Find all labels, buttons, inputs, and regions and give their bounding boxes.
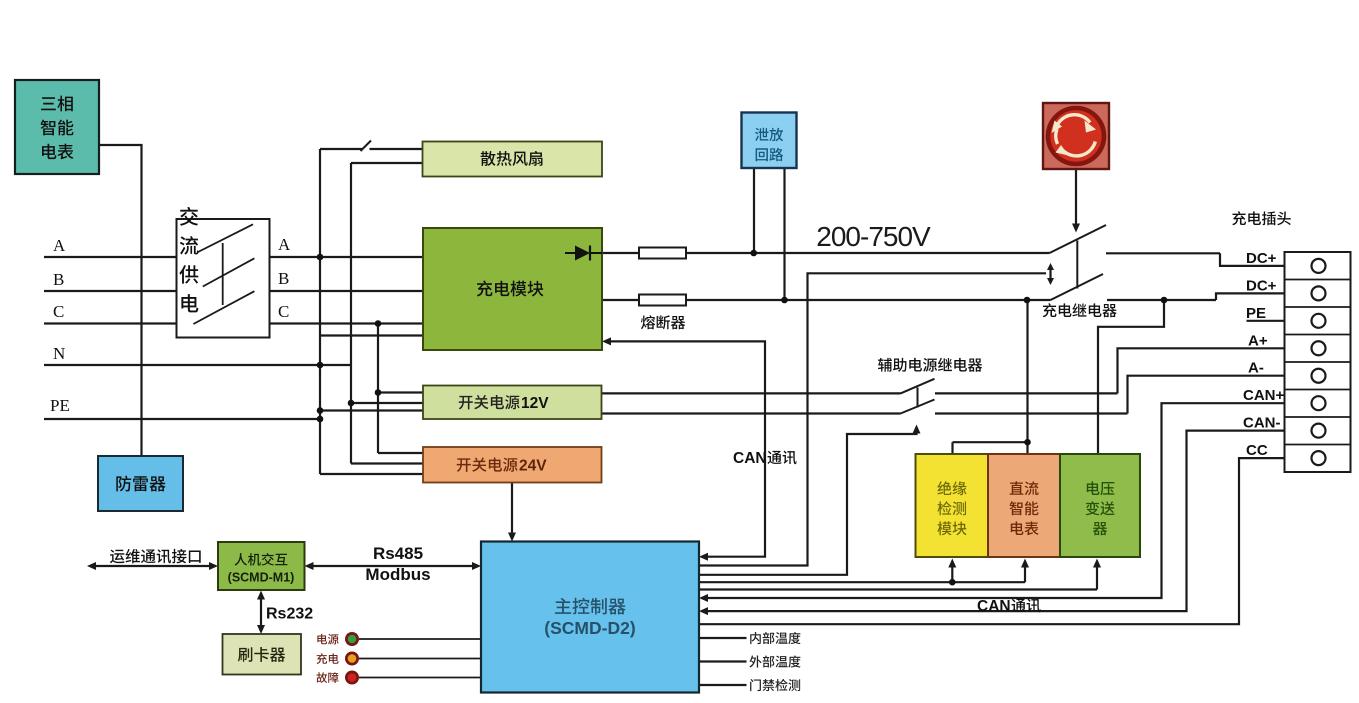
connector divider [1285,361,1351,363]
junction [317,416,324,423]
svg-text:N: N [53,344,65,363]
breaker blades [197,224,253,252]
wire vertical tap x320 [319,149,321,474]
wire 12V output 2 [602,412,901,414]
arrowhead Rs232 down [257,625,265,634]
arrowhead O&M left [87,562,96,570]
label external temp [749,655,800,667]
connector pin circle [1312,341,1326,355]
label LED charging [317,653,339,664]
svg-text:Rs232: Rs232 [266,606,313,623]
arrowhead CAN- into controller [699,607,708,615]
junction [375,320,382,327]
fuse F1 [639,248,686,259]
arrowhead comm transducer [1093,559,1101,568]
wire 24V PSU input L [378,452,423,454]
arrowhead Rs485 left [305,562,314,570]
wire A+ feed [935,392,1118,394]
svg-text:A+: A+ [1248,332,1268,349]
svg-text:B: B [278,269,289,288]
svg-text:CAN: CAN [733,450,767,467]
arrowhead 24V into controller [508,533,516,542]
LED fault indicator [345,671,359,685]
junction [949,579,956,586]
wire DC- after relay [1107,299,1216,301]
diode D1 [575,246,590,261]
svg-text:200-750V: 200-750V [816,221,931,252]
wire discharge circuit leg 2 [783,168,785,300]
wire charger module N input [320,334,423,336]
wire phase C to charger [270,322,424,324]
relay K2 blade upper [901,379,935,394]
relay K1 blade lower [1051,274,1104,300]
arrowhead relay K2 [913,425,921,434]
box insulation detection module [916,454,989,557]
arrowhead O&M right [209,562,218,570]
wire CC to connector [699,458,1312,624]
wire A- to connector [1128,376,1313,414]
wire O&M interface link [92,565,213,567]
svg-text:CAN+: CAN+ [1243,387,1284,404]
wire PE to connector [1247,320,1313,322]
junction [348,400,355,407]
wire comm insulation/DC-meter [699,581,1025,583]
svg-text:12V: 12V [521,395,549,412]
wire vertical tap x378 [377,324,379,454]
svg-text:DC+: DC+ [1246,277,1277,294]
connector divider [1285,334,1351,336]
label PSU 12V [459,395,520,409]
box switching PSU 24V [423,447,602,483]
wire LED fault [359,677,481,679]
wire fan feed L right segment [370,148,423,150]
svg-text:(SCMD-M1): (SCMD-M1) [228,571,295,585]
label charging relay [1043,303,1117,317]
wire DC- to connector [1216,293,1312,300]
wire comm up insulation [951,563,953,582]
wire CAN+ to connector [703,403,1312,598]
wire meter to surge arrester [99,145,142,456]
svg-text:A: A [278,235,291,254]
wire comm up transducer [1096,563,1098,590]
wire DC+ bus [602,252,1050,254]
wire door detection [699,684,747,686]
svg-text:A-: A- [1248,360,1264,377]
wire 24V PSU input PE [320,473,423,475]
connector divider [1285,389,1351,391]
LED power indicator [345,632,359,646]
wire 24V PSU input N [351,462,423,464]
wire Rs485 link [310,565,477,567]
wire comm up DC meter [1024,563,1026,582]
relay K1 blade upper [1050,225,1107,253]
svg-text:24V: 24V [519,458,547,475]
box charging module [423,228,602,350]
box emergency stop button [1043,103,1109,169]
connector pin circle [1312,451,1326,465]
junction [1024,439,1031,446]
wire CAN- to connector [703,431,1312,611]
label O&M comm interface [110,549,201,564]
wire DC meter top feed [1026,300,1028,454]
wire phase A left [44,256,177,258]
connector pin circle [1312,396,1326,410]
label aux power relay [878,358,982,372]
junction [375,389,382,396]
wire insulation module top drop [951,442,953,454]
arrowhead comm insulation [948,559,956,568]
wire CAN to charger module [606,341,765,556]
arrowhead estop [1072,224,1080,233]
wire 12V PSU input L [378,391,423,393]
relay K1 link bar [1076,241,1078,289]
svg-text:CAN-: CAN- [1243,415,1281,432]
wire internal temperature [699,637,747,639]
connector divider [1285,416,1351,418]
connector pin circle [1312,369,1326,383]
wire LED power [359,638,481,640]
svg-text:DC+: DC+ [1246,250,1277,267]
connector divider [1285,306,1351,308]
label internal temp [750,632,800,644]
wire A+ to connector [1118,348,1313,393]
box cooling fan [423,142,603,177]
connector pin circle [1312,424,1326,438]
wire DC+ after relay [1106,252,1220,254]
box card reader [223,634,302,675]
label charging plug [1232,211,1291,225]
wire DC- bus [602,299,1051,301]
label LED power [317,634,338,645]
fuse F2 [639,295,686,306]
junction [317,362,324,369]
wire Rs232 link [260,595,262,630]
box voltage transducer [1060,454,1140,557]
wire PE [44,418,320,420]
box HMI [218,542,305,590]
wire insulation module top feed [953,441,1028,443]
wire discharge circuit leg 1 [753,168,755,253]
arrowhead comm DC meter [1021,559,1029,568]
wire phase A to charger [270,256,424,258]
label LED fault [316,672,338,683]
wire phase B to charger [270,290,424,292]
svg-text:B: B [53,270,64,289]
junction [1024,297,1031,304]
svg-text:C: C [53,302,64,321]
LED charging indicator [345,652,359,666]
svg-text:CC: CC [1246,442,1268,459]
wire fan feed L left segment [320,148,362,150]
junction [317,254,324,261]
label AC supply [180,207,198,226]
wire A- feed [935,412,1128,414]
wire emergency stop to relay [1075,169,1077,228]
wire 24V to controller [511,483,513,538]
relay K2 link bar [917,388,919,408]
arrowhead CAN into module [602,337,611,345]
connector divider [1285,444,1351,446]
connector divider [1285,279,1351,281]
connector pin circle [1312,259,1326,273]
label door detection [750,679,800,691]
svg-text:Rs485: Rs485 [373,544,423,563]
svg-text:A: A [53,236,66,255]
box AC supply breaker [177,219,270,338]
svg-text:PE: PE [50,396,70,415]
wire phase B left [44,290,177,292]
label PSU 24V [457,457,518,471]
box switching PSU 12V [423,386,602,420]
svg-text:(SCMD-D2): (SCMD-D2) [544,618,635,638]
wire comm voltage transducer [699,588,1097,590]
box surge arrester [98,456,183,511]
junction [781,297,788,304]
arrowhead CAN+ into controller [699,594,708,602]
label fuse [641,315,685,329]
switch fan breaker blade [361,141,372,152]
wire 12V PSU input PE [320,409,423,411]
box DC smart meter [988,454,1060,557]
svg-text:PE: PE [1246,305,1266,322]
wire LED charging [359,658,481,660]
junction [1161,297,1168,304]
relay K2 blade lower [901,400,935,414]
connector charging plug [1285,252,1351,472]
box discharge circuit [742,113,797,169]
connector pin circle [1312,286,1326,300]
wire voltage transducer top feed [1098,300,1164,454]
wire relay K1 actuate [1049,267,1051,282]
svg-text:Modbus: Modbus [365,565,430,584]
svg-text:C: C [278,302,289,321]
arrowhead Rs485 right [472,562,481,570]
junction [317,407,324,414]
wire neutral N [44,364,351,366]
box main controller [481,542,699,693]
wire phase C left [44,322,177,324]
wire DC+ to connector [1220,253,1312,266]
wire relay K2 drive [699,430,917,575]
connector pin circle [1312,314,1326,328]
svg-text:CAN: CAN [977,598,1011,615]
arrowhead CAN into controller [699,553,708,561]
arrowhead relay up [1047,263,1054,270]
wire 12V PSU input N [351,402,423,404]
wire relay K1 drive [699,273,1046,565]
box three-phase smart meter [15,80,99,174]
wire external temperature [699,660,747,662]
wire 12V output 1 [602,392,901,394]
wire vertical tap x351 [350,163,352,464]
junction [750,250,757,257]
arrowhead Rs232 up [257,591,265,600]
wire fan feed N [351,162,423,164]
arrowhead relay down [1047,278,1054,285]
